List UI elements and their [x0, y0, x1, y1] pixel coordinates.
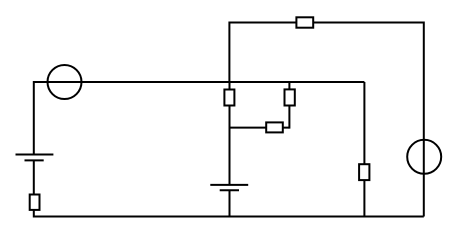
source V2 (right circle)	[407, 140, 441, 174]
wire middle vertical lower (battery bottom plate to bottom rail)	[229, 190, 231, 217]
battery B2 short plate	[220, 189, 239, 191]
resistor R3 (middle-right vertical box)	[285, 89, 295, 105]
wire bottom rail	[34, 216, 424, 218]
wire top-right vertical through right source down to bottom rail	[423, 22, 425, 217]
wire left vertical lower (battery bottom plate to bottom rail)	[33, 160, 35, 217]
wire main horizontal rail	[34, 81, 365, 83]
battery B2 long plate	[210, 184, 248, 186]
battery B1 long plate	[16, 154, 54, 156]
resistor R2 (middle-left vertical box)	[224, 90, 234, 106]
wire left vertical upper (corner to battery top plate)	[33, 81, 35, 155]
wire middle vertical upper (main rail to battery top plate)	[229, 82, 231, 185]
wire top rail	[229, 22, 423, 24]
resistor R5 (right vertical box)	[359, 164, 369, 180]
wire top-left vertical	[228, 22, 230, 83]
wire branch horizontal at node between R2 and R4	[230, 127, 290, 129]
wire branch vertical (R3 bottom to branch)	[288, 82, 290, 129]
resistor R6 (bottom-left vertical box)	[30, 195, 40, 210]
battery B1 short plate	[25, 159, 44, 161]
wire right vertical (main rail through R5 to bottom rail)	[363, 82, 365, 218]
source V1 (left circle)	[48, 65, 82, 99]
resistor R4 (middle horizontal box)	[266, 122, 283, 132]
resistor R1 (top horizontal box)	[296, 17, 313, 27]
